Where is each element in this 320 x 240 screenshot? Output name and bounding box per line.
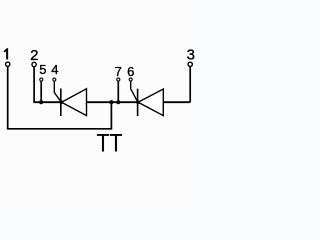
svg-text:4: 4 — [51, 62, 58, 77]
node dot at V2 apex — [136, 100, 140, 104]
svg-text:7: 7 — [115, 64, 122, 79]
thyristor V2 cathode bar — [137, 89, 139, 116]
terminal 1 circle — [6, 62, 10, 66]
node junction dot terminal 7 / main wire — [116, 100, 120, 104]
gate wire terminal 4 to thyristor V1 — [54, 81, 61, 102]
terminal 1 label — [4, 48, 8, 59]
thyristor V1 triangle — [62, 89, 87, 116]
main wire — [33, 101, 190, 103]
thyristor V1 cathode bar — [60, 89, 62, 117]
wire terminal 2 down to main wire — [33, 67, 35, 102]
wire terminal 5 down — [40, 81, 42, 102]
terminal 5 circle — [40, 78, 43, 81]
svg-text:2: 2 — [30, 47, 38, 64]
terminal 6 circle — [129, 78, 132, 81]
terminal 3 circle — [188, 62, 192, 66]
svg-text:3: 3 — [187, 46, 195, 63]
terminal 2 circle — [32, 62, 36, 66]
terminal 7 circle — [117, 78, 120, 81]
wire terminal 3 down to main wire — [189, 67, 191, 103]
terminal 4 circle — [53, 78, 56, 81]
svg-text:5: 5 — [39, 62, 46, 77]
svg-text:6: 6 — [127, 64, 134, 79]
gate wire terminal 6 to thyristor V2 — [131, 81, 138, 102]
wire terminal 1 to bottom loop — [8, 67, 112, 129]
svg-text:TT: TT — [97, 129, 123, 157]
node junction dot at loop / main wire — [109, 100, 113, 104]
wire terminal 7 down — [117, 81, 119, 102]
node junction dot terminal 5 / main wire — [39, 100, 43, 104]
thyristor V2 triangle — [138, 89, 163, 116]
node dot at V1 apex — [60, 100, 64, 104]
